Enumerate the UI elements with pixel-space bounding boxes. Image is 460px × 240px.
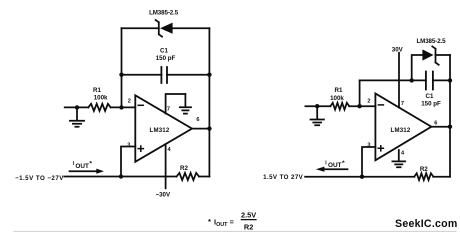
svg-text:3: 3 <box>367 142 370 148</box>
resistor R2 left <box>177 173 199 180</box>
node cap rail right end <box>207 73 211 77</box>
op-amp U2 LM312 right <box>375 94 431 161</box>
node pin2 right <box>357 104 361 108</box>
svg-text:6: 6 <box>196 117 199 123</box>
svg-text:SeekIC.com: SeekIC.com <box>395 218 458 230</box>
minus input mark right <box>378 104 383 106</box>
wire 30V supply right <box>398 53 400 108</box>
wire pin3 right <box>362 147 375 177</box>
svg-text:150 pF: 150 pF <box>421 100 441 107</box>
wire zener loop right <box>412 55 450 80</box>
svg-text:R2: R2 <box>180 165 188 172</box>
node pin3 bottom right <box>360 175 364 179</box>
svg-text:1.5V TO 27V: 1.5V TO 27V <box>263 174 304 181</box>
minus input mark left <box>138 104 143 106</box>
svg-text:150 pF: 150 pF <box>156 55 176 62</box>
node pin3 bottom left <box>119 174 123 178</box>
svg-text:LM385-2.5: LM385-2.5 <box>416 38 446 45</box>
node zener stub right <box>410 78 414 82</box>
svg-text:LM385-2.5: LM385-2.5 <box>149 10 179 17</box>
wire top feedback right <box>360 79 450 81</box>
zener diode LM385-2.5 right <box>422 46 438 64</box>
wire left rail right circuit <box>359 80 361 106</box>
svg-text:R1: R1 <box>335 87 343 94</box>
wire left input stub <box>65 106 136 108</box>
wire bottom right circuit <box>305 176 450 178</box>
wire left feedback rail <box>121 28 123 107</box>
formula IOUT = 2.5V/R2 <box>208 211 257 232</box>
svg-text:3: 3 <box>127 142 130 148</box>
wire cap rail left <box>122 74 210 76</box>
svg-text:6: 6 <box>434 121 437 127</box>
svg-text:R1: R1 <box>93 87 101 94</box>
plus input mark right <box>378 146 383 151</box>
plus input mark left <box>138 146 143 151</box>
wire pin7 left <box>166 94 186 114</box>
wire input stub right <box>305 105 375 107</box>
svg-text:30V: 30V <box>392 47 404 54</box>
wire output pin6 right <box>431 126 450 128</box>
ground pin7 left <box>180 94 191 114</box>
node top right rail <box>448 78 452 82</box>
wire bottom left circuit <box>64 176 209 178</box>
svg-text:C1: C1 <box>160 47 168 54</box>
svg-text:2.5V: 2.5V <box>241 211 256 220</box>
wire right rail right circuit <box>449 55 451 177</box>
faint scan line bottom <box>14 230 456 232</box>
svg-text:7: 7 <box>401 101 404 107</box>
zener diode LM385-2.5 left <box>156 20 173 37</box>
capacitor C1 left <box>161 67 167 83</box>
svg-text:C1: C1 <box>426 93 434 100</box>
svg-text:2: 2 <box>128 99 131 105</box>
wire output pin6 left <box>192 128 209 130</box>
op-amp U1 LM312 left <box>135 95 192 162</box>
node cap rail left end <box>119 73 123 77</box>
node pin6 left <box>207 126 211 130</box>
svg-text:LM312: LM312 <box>391 127 411 134</box>
svg-text:−30V: −30V <box>155 192 170 199</box>
wire right rail left circuit <box>208 28 210 176</box>
resistor R1 right <box>330 103 349 110</box>
svg-text:100k: 100k <box>330 95 344 102</box>
svg-text:R2: R2 <box>420 166 428 173</box>
svg-text:7: 7 <box>167 107 170 113</box>
node pin6 right <box>448 125 452 129</box>
ground pin4 right <box>392 150 405 167</box>
resistor R1 <box>88 104 110 111</box>
wire pin3 left <box>121 147 135 177</box>
resistor R2 right <box>414 173 433 180</box>
capacitor C1 right <box>426 72 433 90</box>
svg-text:100k: 100k <box>94 95 108 102</box>
ground input left <box>70 105 84 127</box>
arrow IOUT right <box>316 167 348 172</box>
svg-text:*: * <box>208 217 211 226</box>
wire pin4 to -30V left <box>165 144 167 188</box>
arrow IOUT left <box>70 169 105 174</box>
wire top rail left <box>122 27 210 29</box>
svg-text:2: 2 <box>367 99 370 105</box>
ground input right <box>311 104 324 125</box>
node pin2 left <box>119 105 123 109</box>
svg-text:LM312: LM312 <box>150 127 170 134</box>
svg-text:R2: R2 <box>244 222 253 231</box>
svg-text:−1.5V TO −27V: −1.5V TO −27V <box>15 175 64 182</box>
